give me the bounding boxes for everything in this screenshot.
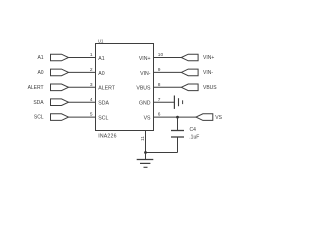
svg-text:INA226: INA226 [98,133,117,139]
svg-text:3: 3 [90,82,93,88]
svg-text:VIN+: VIN+ [139,56,151,62]
wire pin 10 [154,57,182,59]
svg-text:4: 4 [90,97,93,103]
svg-text:10: 10 [158,52,164,58]
node SCL (port flag) [34,114,69,121]
svg-text:VIN-: VIN- [140,71,151,77]
node SDA (port flag) [33,99,68,106]
junction dot VS net [176,116,179,119]
node VBUS (port flag) [181,84,217,91]
svg-text:SCL: SCL [34,115,44,121]
ground symbol [137,153,154,168]
svg-text:7: 7 [158,97,161,103]
svg-text:GND: GND [139,101,151,107]
node A1 (port flag) [37,54,68,61]
svg-text:ALERT: ALERT [28,85,44,91]
ground symbol (rotated) at GND pin [174,96,182,109]
svg-text:A1: A1 [98,56,104,62]
svg-text:9: 9 [158,67,161,73]
svg-text:ALERT: ALERT [98,86,115,92]
node A0 (port flag) [37,69,68,76]
svg-text:11: 11 [140,136,146,141]
svg-text:C4: C4 [190,127,197,133]
svg-text:SCL: SCL [98,116,108,122]
junction dot ground net [144,151,147,154]
wire pin 1 [69,57,96,59]
svg-text:.1uF: .1uF [189,135,199,141]
svg-text:VBUS: VBUS [203,85,217,91]
node VIN+ (port flag) [181,54,214,61]
svg-text:U1: U1 [98,38,104,43]
svg-text:VS: VS [144,116,151,122]
wire pin 7 (GND) [154,101,175,103]
wire pin 5 [69,116,96,118]
svg-text:VIN+: VIN+ [203,55,214,61]
svg-text:SDA: SDA [33,100,44,106]
svg-text:VIN-: VIN- [203,70,213,76]
wire pin 9 [154,71,182,73]
wire C4 to ground net [146,152,178,154]
wire pin 6 (VS) [154,116,197,118]
svg-text:VBUS: VBUS [136,86,151,92]
wire pin 4 [69,101,96,103]
IC U1 INA226 body [96,44,154,131]
capacitor C4 [171,117,184,152]
svg-text:2: 2 [90,67,93,73]
node VS (port flag) [196,114,223,121]
svg-text:6: 6 [158,112,161,118]
wire pin 3 [69,86,96,88]
wire pin 8 [154,86,182,88]
svg-text:SDA: SDA [98,101,109,107]
svg-text:1: 1 [90,52,93,58]
svg-text:5: 5 [90,112,93,118]
wire pin 2 [69,71,96,73]
wire pin 11 (thermal pad) [145,131,147,153]
svg-text:8: 8 [158,82,161,88]
node VIN- (port flag) [181,69,213,76]
svg-text:A0: A0 [98,71,104,77]
svg-text:A1: A1 [37,55,43,61]
node ALERT (port flag) [28,84,69,91]
svg-text:VS: VS [215,115,222,121]
svg-text:A0: A0 [37,70,43,76]
